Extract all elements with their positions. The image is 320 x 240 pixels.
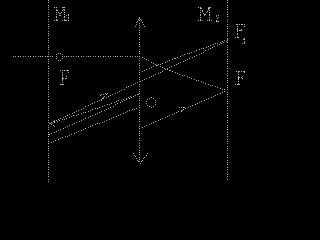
image point circle O bbox=[146, 97, 156, 108]
label M1 subscript 1 bbox=[66, 14, 69, 21]
lens arrow down bbox=[133, 153, 148, 164]
arrowhead on ray D1 mid bbox=[100, 93, 108, 101]
label F right bbox=[235, 71, 245, 85]
ray B parallel bbox=[49, 94, 139, 135]
label F1 subscript 1 bbox=[242, 38, 245, 44]
ray D4 lens bottom to P3 bbox=[139, 91, 225, 129]
ray D3 axis to point P3 bbox=[139, 56, 225, 90]
ray D1 from M1 to F1 bbox=[49, 41, 227, 124]
label F left bbox=[60, 70, 69, 85]
mirror M1 line bbox=[48, 0, 49, 182]
label F1 top right bbox=[235, 24, 245, 38]
ray D2 lowest parallel bbox=[48, 107, 140, 144]
label M2 subscript 2 bbox=[216, 15, 219, 22]
label M2 bbox=[198, 7, 212, 21]
arrowhead on ray D4 bbox=[179, 107, 185, 112]
arrowhead at ray D1 start bbox=[50, 120, 55, 127]
optical axis horizontal line bbox=[13, 56, 140, 57]
lens arrow up bbox=[135, 17, 145, 27]
ray L1 lens to F1 bbox=[139, 39, 228, 73]
focal point circle F bbox=[56, 53, 63, 61]
ray D1a flat to lens bbox=[50, 94, 138, 124]
label M1 bbox=[54, 7, 66, 21]
mirror M2 line bbox=[227, 0, 228, 180]
lens plane vertical line bbox=[139, 18, 140, 162]
